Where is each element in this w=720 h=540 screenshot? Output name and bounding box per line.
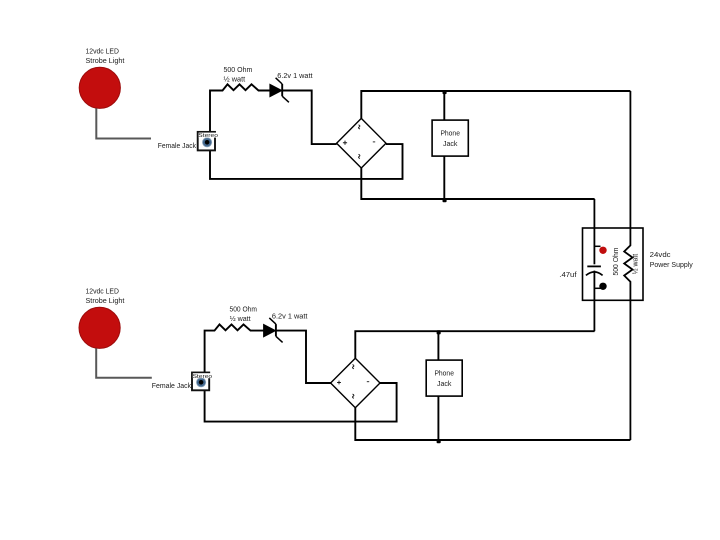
svg-text:6.2v 1 watt: 6.2v 1 watt <box>272 311 308 320</box>
svg-text:500 Ohm: 500 Ohm <box>230 305 257 314</box>
svg-text:500 Ohm: 500 Ohm <box>611 248 620 276</box>
svg-text:Stereo: Stereo <box>193 374 213 380</box>
svg-text:½ watt: ½ watt <box>230 314 252 323</box>
svg-text:.47uf: .47uf <box>559 270 577 279</box>
svg-text:Power Supply: Power Supply <box>650 260 693 269</box>
svg-text:12vdc LED: 12vdc LED <box>86 47 120 56</box>
svg-text:Female Jack: Female Jack <box>152 381 191 390</box>
svg-text:Phone: Phone <box>434 368 454 377</box>
svg-text:Jack: Jack <box>437 379 452 388</box>
svg-text:6.2v 1 watt: 6.2v 1 watt <box>277 71 313 80</box>
svg-text:½ watt: ½ watt <box>631 253 640 274</box>
svg-text:Female Jack: Female Jack <box>158 141 196 150</box>
svg-text:Strobe Light: Strobe Light <box>86 296 126 305</box>
svg-text:12vdc LED: 12vdc LED <box>86 287 120 296</box>
svg-text:24vdc: 24vdc <box>650 250 671 259</box>
svg-text:Stereo: Stereo <box>198 133 218 139</box>
svg-text:½ watt: ½ watt <box>224 74 247 83</box>
svg-text:Phone: Phone <box>440 128 460 137</box>
svg-text:500 Ohm: 500 Ohm <box>224 65 253 74</box>
svg-text:Strobe Light: Strobe Light <box>86 56 126 65</box>
svg-text:Jack: Jack <box>443 139 458 148</box>
